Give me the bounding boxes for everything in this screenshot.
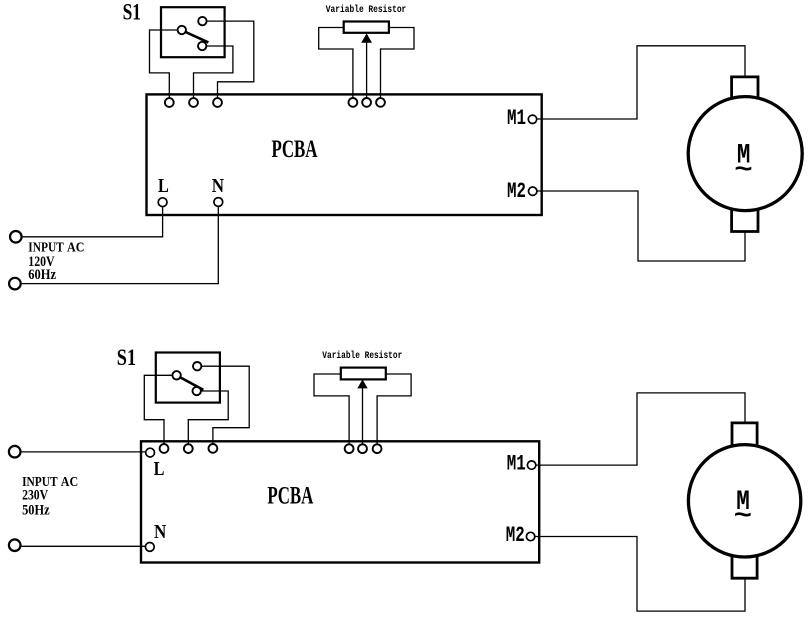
- svg-text:L: L: [158, 175, 169, 197]
- svg-text:L: L: [154, 458, 165, 480]
- svg-text:~: ~: [734, 155, 753, 185]
- svg-text:60Hz: 60Hz: [28, 267, 56, 283]
- svg-text:N: N: [154, 521, 167, 543]
- svg-text:50Hz: 50Hz: [22, 502, 50, 518]
- svg-text:AC: AC: [61, 475, 78, 490]
- svg-text:PCBA: PCBA: [272, 134, 318, 163]
- svg-text:AC: AC: [67, 240, 84, 255]
- svg-text:Variable Resistor: Variable Resistor: [322, 350, 402, 362]
- svg-text:Variable Resistor: Variable Resistor: [326, 4, 407, 16]
- svg-text:M2: M2: [506, 522, 525, 548]
- svg-text:~: ~: [734, 501, 753, 531]
- svg-text:M2: M2: [507, 178, 526, 204]
- svg-text:PCBA: PCBA: [267, 480, 313, 509]
- svg-text:N: N: [212, 175, 225, 197]
- svg-text:S1: S1: [123, 0, 141, 26]
- svg-text:S1: S1: [117, 345, 136, 371]
- svg-text:M1: M1: [507, 451, 526, 477]
- svg-text:230V: 230V: [22, 488, 48, 504]
- svg-text:M1: M1: [507, 105, 526, 131]
